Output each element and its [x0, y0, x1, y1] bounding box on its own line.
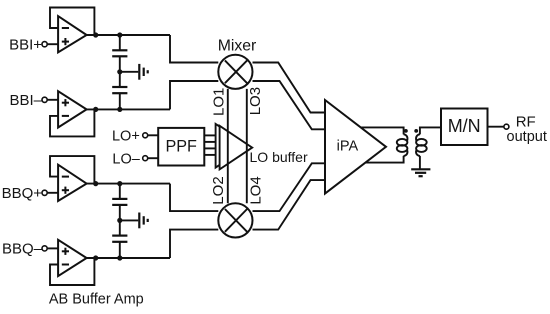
wire U3 feedback loop — [50, 156, 94, 184]
ground G2 — [139, 213, 147, 229]
wire BBI+ input — [47, 43, 58, 45]
terminal LO+ — [143, 133, 148, 138]
ground G1 — [139, 64, 147, 80]
wire PPF out 3 — [204, 147, 215, 149]
wire M/N output — [488, 126, 505, 128]
amplifier LO buffer (stacked pair) — [216, 124, 253, 169]
op-amp U2 (BBI- buffer) — [58, 91, 87, 127]
wire cap chain I — [119, 35, 121, 109]
capacitor C4 — [112, 236, 127, 242]
wire iPA lower output to transformer — [365, 156, 403, 163]
transformer T1 polarity dot primary — [404, 129, 408, 133]
svg-text:Mixer: Mixer — [218, 37, 257, 54]
wire LO+ input — [148, 134, 159, 136]
wire U2 output — [87, 108, 170, 110]
transformer T1 secondary winding — [416, 134, 427, 156]
junction dot U2 output — [93, 107, 98, 112]
wire iPA upper output to transformer — [361, 127, 404, 134]
transformer T1 primary winding — [397, 134, 408, 156]
svg-text:BBI–: BBI– — [9, 92, 42, 109]
svg-text:AB Buffer Amp: AB Buffer Amp — [49, 292, 144, 308]
mixer M1 — [218, 55, 252, 89]
svg-text:RF: RF — [516, 113, 536, 130]
transformer T1 polarity dot secondary — [414, 129, 418, 133]
wire U4 output — [87, 257, 170, 259]
svg-text:iPA: iPA — [337, 139, 359, 155]
wire BBI- input — [47, 99, 58, 101]
wire to ground G2 — [120, 219, 139, 221]
wire U1 to mixer M1 upper input — [170, 35, 218, 63]
wire BBQ- input — [47, 247, 58, 249]
wire LO- input — [148, 157, 159, 159]
junction dot cap chain Q top — [117, 181, 122, 186]
wire U4 feedback loop — [50, 258, 94, 285]
wire LO3/LO4 — [246, 89, 248, 203]
svg-text:LO–: LO– — [112, 151, 140, 167]
svg-text:LO1: LO1 — [210, 88, 227, 116]
wire M2 lower output to iPA — [253, 180, 326, 230]
wire U4 to mixer M2 lower input — [170, 230, 218, 258]
mixer M2 — [218, 203, 252, 237]
junction dot cap chain I bottom — [117, 107, 122, 112]
junction dot U1 output — [93, 32, 98, 37]
block PPF — [158, 128, 204, 166]
svg-text:BBI+: BBI+ — [9, 37, 42, 54]
terminal BBQ- — [42, 246, 47, 251]
op-amp U3 (BBQ+ buffer) — [58, 165, 87, 201]
wire PPF out 1 — [204, 134, 215, 136]
op-amp U1 (BBI+ buffer) — [58, 16, 87, 52]
terminal LO- — [143, 156, 148, 161]
terminal BBI- — [42, 97, 47, 102]
terminal RF output — [504, 124, 509, 129]
capacitor C3 — [112, 199, 127, 205]
capacitor C1 — [112, 50, 127, 56]
wire U1 feedback loop — [50, 8, 94, 36]
wire U1 output — [87, 34, 170, 36]
svg-text:LO2: LO2 — [210, 176, 227, 204]
terminal BBI+ — [42, 42, 47, 47]
op-amp U4 (BBQ- buffer) — [58, 240, 87, 276]
junction dot cap chain I mid — [117, 69, 122, 74]
amplifier iPA — [325, 100, 386, 194]
wire PPF out 2 — [204, 141, 215, 143]
wire U2 feedback loop — [50, 109, 94, 136]
wire secondary bottom to ground — [419, 156, 421, 169]
junction dot cap chain I top — [117, 32, 122, 37]
wire M1 lower output to iPA — [253, 81, 326, 129]
wire U3 output — [87, 183, 170, 185]
terminal BBQ+ — [42, 190, 47, 195]
wire to ground G1 — [120, 71, 139, 73]
junction dot cap chain Q mid — [117, 218, 122, 223]
svg-text:PPF: PPF — [165, 138, 197, 156]
wire cap chain Q — [119, 184, 121, 258]
wire U2 to mixer M1 lower input — [170, 81, 218, 109]
wire secondary top to M/N — [420, 127, 441, 134]
wire U3 to mixer M2 upper input — [170, 184, 218, 212]
wire PPF out 4 — [204, 154, 215, 156]
junction dot cap chain Q bottom — [117, 255, 122, 260]
svg-text:LO buffer: LO buffer — [250, 149, 308, 165]
svg-text:LO3: LO3 — [247, 87, 264, 115]
junction dot U4 output — [93, 255, 98, 260]
ground G3 — [411, 169, 430, 176]
wire M1 upper output to iPA — [253, 63, 326, 113]
svg-text:LO4: LO4 — [247, 176, 264, 204]
svg-text:output: output — [507, 129, 547, 145]
junction dot U3 output — [93, 181, 98, 186]
block M/N — [441, 109, 488, 146]
svg-text:BBQ+: BBQ+ — [2, 185, 43, 202]
svg-text:BBQ–: BBQ– — [2, 241, 43, 258]
wire M2 upper output to iPA — [253, 163, 326, 211]
wire BBQ+ input — [47, 192, 58, 194]
svg-text:LO+: LO+ — [112, 128, 140, 144]
capacitor C2 — [112, 87, 127, 93]
svg-text:M/N: M/N — [448, 116, 481, 136]
wire LO1/LO2 — [227, 89, 229, 203]
